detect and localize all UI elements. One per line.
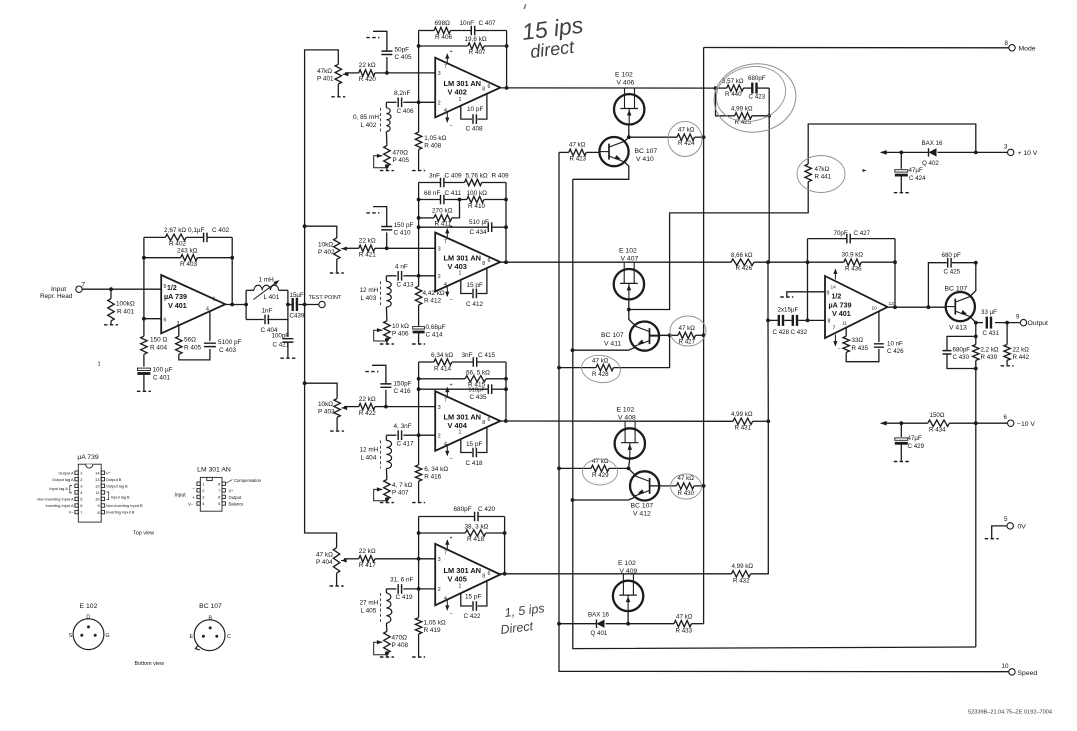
svg-text:C 417: C 417	[397, 441, 414, 448]
wire rail E (Mode rail)	[703, 48, 705, 624]
supply arrow up pin7 V404	[446, 388, 448, 397]
wire pin4 stub V401a	[209, 311, 211, 341]
svg-text:4: 4	[206, 307, 209, 313]
op-amp LM301AN V402	[435, 58, 500, 118]
svg-text:C 408: C 408	[466, 126, 483, 133]
svg-text:L 405: L 405	[361, 608, 377, 615]
transistor V409 E102	[613, 574, 643, 611]
junction row2 right V404	[504, 377, 508, 381]
wire C419 to pin2	[386, 588, 396, 590]
resistor R417 22k	[359, 556, 375, 562]
junction R424 rail E	[702, 135, 706, 139]
svg-text:52339B–21.04.75–ZE 0192–7004: 52339B–21.04.75–ZE 0192–7004	[968, 710, 1052, 716]
junction R436 left	[806, 260, 810, 264]
capacitor C417 4,3nF	[398, 430, 401, 440]
terminal -10V pin 6	[1008, 420, 1014, 426]
wire down to R412	[418, 276, 420, 286]
svg-text:680pF: 680pF	[748, 75, 766, 82]
potentiometer P406 10k	[384, 321, 390, 340]
junction P408 bottom	[385, 651, 389, 655]
svg-text:R 401: R 401	[117, 309, 134, 316]
svg-text:9: 9	[1016, 314, 1020, 321]
compensation leader line	[226, 480, 233, 484]
svg-text:P 405: P 405	[393, 157, 410, 164]
dashed ground below C429	[894, 461, 909, 463]
wire R435 bottom to C426 bottom	[846, 349, 879, 362]
svg-text:8: 8	[218, 481, 220, 486]
svg-text:B: B	[208, 616, 212, 622]
svg-text:Compensation: Compensation	[234, 478, 262, 483]
arrow through L401	[254, 282, 278, 300]
svg-text:10kΩ: 10kΩ	[318, 401, 333, 408]
wire feedback left vertical V403	[418, 183, 420, 276]
wire feedback row2 V405	[419, 532, 466, 534]
wire P403 to ground	[336, 417, 338, 430]
svg-text:R 411: R 411	[435, 221, 452, 228]
svg-text:4: 4	[444, 282, 447, 288]
wire tank bottom to C421	[287, 320, 289, 338]
svg-text:19,6 kΩ: 19,6 kΩ	[465, 36, 487, 43]
svg-text:+ 10 V: + 10 V	[1018, 150, 1038, 157]
svg-text:C 411: C 411	[445, 190, 462, 197]
wire C410 top to dashed ground	[373, 207, 387, 227]
junction rail G +10V	[974, 151, 978, 155]
svg-text:698Ω: 698Ω	[435, 20, 451, 27]
svg-text:22 kΩ: 22 kΩ	[359, 548, 376, 555]
svg-text:0,68µF: 0,68µF	[426, 324, 446, 331]
svg-text:−: −	[450, 297, 453, 303]
junction row2 left V404	[417, 377, 421, 381]
wire L402 top	[385, 102, 387, 108]
wire R433 row	[628, 623, 674, 625]
svg-text:6: 6	[488, 417, 491, 423]
svg-text:C 407: C 407	[479, 20, 496, 27]
wire L405 to P408	[385, 623, 388, 631]
svg-text:L 401: L 401	[264, 294, 280, 301]
svg-text:Inverting Input A: Inverting Input A	[45, 503, 74, 508]
supply arrow down pin7 V401b	[834, 335, 836, 346]
junction rail F output node	[766, 260, 770, 264]
svg-text:BC 107: BC 107	[199, 603, 222, 610]
svg-text:2: 2	[438, 433, 441, 439]
wire pin3 stub V401a	[178, 326, 180, 337]
svg-text:4,99 kΩ: 4,99 kΩ	[732, 563, 754, 570]
capacitor C409 3nF	[441, 178, 444, 188]
svg-text:L 404: L 404	[361, 455, 377, 462]
svg-text:Non-inverting Input A: Non-inverting Input A	[37, 497, 74, 502]
wire P404 to ground	[336, 573, 338, 585]
svg-text:−10 V: −10 V	[1017, 421, 1035, 428]
svg-text:1 mH: 1 mH	[259, 277, 275, 284]
svg-text:1,05 kΩ: 1,05 kΩ	[424, 135, 446, 142]
junction V408/V412 node	[627, 467, 631, 471]
wire P401 to ground	[337, 84, 339, 96]
wire C406 right	[403, 101, 406, 103]
svg-text:9: 9	[827, 291, 830, 297]
junction P407 bottom	[385, 497, 389, 501]
resistor R405 56	[176, 336, 182, 354]
svg-text:7: 7	[444, 239, 447, 245]
junction row3 left V403	[417, 225, 421, 229]
junction pin3 node V402	[385, 71, 389, 75]
svg-text:0V: 0V	[1018, 524, 1027, 531]
capacitor C432 15uF	[792, 315, 794, 326]
wire feedback right vertical V404	[505, 362, 507, 421]
svg-text:Non-inverting Input B: Non-inverting Input B	[106, 503, 143, 508]
resistor R431 4,99k	[733, 418, 753, 424]
terminal TEST POINT	[319, 301, 325, 307]
svg-text:Speed: Speed	[1018, 670, 1038, 677]
potentiometer P402 10k	[334, 238, 340, 259]
wire V406 bottom to junction	[628, 124, 630, 137]
junction V409/Q401/R433 node	[626, 622, 630, 626]
svg-text:R 441: R 441	[815, 174, 832, 181]
svg-text:243 kΩ: 243 kΩ	[177, 248, 198, 255]
wire 0V stub	[992, 526, 1007, 538]
svg-text:R 414: R 414	[434, 365, 451, 372]
wire feedback right vertical V403	[505, 183, 507, 263]
svg-text:C 418: C 418	[466, 460, 483, 467]
wire compensation box V403	[461, 280, 472, 294]
resistor R422 22k	[359, 403, 375, 409]
wire feedback left vertical V401a	[143, 237, 145, 318]
svg-text:1: 1	[213, 297, 216, 303]
svg-text:4: 4	[444, 596, 447, 602]
svg-text:6: 6	[488, 84, 491, 90]
wire L403 top	[385, 276, 387, 282]
wire R442 to ground	[1006, 360, 1008, 365]
wire output row V404 to R431	[500, 420, 733, 422]
wire C419 right	[403, 588, 406, 590]
wire C405 top to dashed ground	[373, 31, 387, 51]
svg-text:7: 7	[82, 282, 86, 289]
ground below P405	[380, 170, 394, 172]
wire pot wiper row V404	[344, 406, 359, 408]
svg-text:7: 7	[444, 398, 447, 404]
svg-text:P 402: P 402	[318, 249, 335, 256]
wire V410 base row R423	[559, 151, 569, 153]
svg-text:0, 85 mH: 0, 85 mH	[353, 114, 379, 121]
junction rail G -10V	[974, 421, 978, 425]
inductor L405 27mH	[386, 593, 391, 623]
wire V407 bottom junction	[628, 299, 630, 309]
wire rail B (left switching rail to Speed)	[559, 152, 1009, 671]
stray speck marks	[863, 169, 867, 172]
capacitor C411 68nF	[441, 195, 444, 205]
svg-text:BAX 16: BAX 16	[922, 140, 944, 147]
svg-text:Output B: Output B	[106, 477, 122, 482]
capacitor C410 150pF	[381, 227, 392, 230]
ground below P406	[380, 343, 394, 345]
wire compensation box V405	[461, 593, 472, 606]
node input terminal wire	[82, 288, 161, 290]
resistor R419 1,05k	[415, 618, 421, 634]
svg-text:3: 3	[438, 247, 441, 253]
svg-text:−: −	[838, 347, 841, 353]
resistor R429 47k	[591, 465, 609, 471]
capacitor C404 1nF	[265, 315, 268, 325]
capacitor C420 680pF	[475, 512, 478, 522]
svg-text:C 428: C 428	[773, 329, 790, 336]
ground below P407	[380, 502, 394, 504]
svg-text:27 mH: 27 mH	[360, 600, 379, 607]
capacitor C406 8,2nF	[398, 98, 401, 108]
wire C401 to ground	[143, 375, 145, 391]
wire rail C (emitter rail)	[573, 179, 976, 648]
wire V411 emitter to rail C	[573, 348, 635, 350]
wire pin3 row V405	[344, 558, 359, 560]
svg-text:3: 3	[202, 495, 204, 500]
svg-text:V 405: V 405	[448, 575, 467, 584]
wire V408 bottom junction	[629, 459, 630, 469]
svg-text:C 420: C 420	[478, 506, 495, 513]
wire R412 to C414	[418, 305, 420, 326]
wire down to R419	[418, 589, 420, 618]
wire V413 emitter to node	[971, 317, 976, 322]
potentiometer P404 47k	[333, 548, 339, 574]
wire V412 emitter to rail C	[573, 498, 635, 500]
svg-text:2: 2	[438, 587, 441, 593]
wire R436 row	[808, 261, 844, 263]
resistor R425 4,99k	[735, 113, 752, 119]
svg-text:R 419: R 419	[424, 627, 441, 634]
svg-text:C 401: C 401	[153, 375, 170, 382]
transistor V408 E102	[615, 421, 645, 458]
op-amp LM301AN V404	[435, 391, 500, 451]
wire pin9 row with dashed ground	[787, 292, 825, 297]
svg-text:3: 3	[80, 484, 82, 489]
svg-text:V⁺: V⁺	[229, 489, 234, 494]
wire tank box	[245, 290, 247, 319]
potentiometer P407 4,7k	[384, 480, 390, 500]
svg-text:Output lag A: Output lag A	[52, 477, 74, 482]
svg-text:1: 1	[459, 270, 462, 276]
wire C417 right	[403, 434, 406, 436]
svg-text:3: 3	[1004, 143, 1008, 150]
svg-text:L 402: L 402	[361, 122, 377, 129]
wire Mode row	[704, 47, 1009, 49]
wire feedback row2 V401a	[144, 257, 181, 259]
svg-text:1: 1	[459, 430, 462, 436]
wire C425 loop	[928, 263, 946, 308]
svg-text:E 102: E 102	[618, 560, 636, 567]
svg-text:V 408: V 408	[618, 414, 636, 421]
resistor R416 6,34k	[415, 465, 421, 481]
svg-text:4,42 kΩ: 4,42 kΩ	[423, 290, 445, 297]
hand-drawn oval around R440 block	[710, 59, 801, 138]
op-amp LM301AN V403	[435, 233, 500, 292]
svg-text:R 403: R 403	[180, 261, 197, 268]
svg-text:R 440: R 440	[725, 91, 742, 98]
terminal Speed pin 10	[1009, 669, 1015, 675]
svg-text:5100 pF: 5100 pF	[218, 339, 242, 346]
junction V404 output feedback	[504, 419, 508, 423]
junction output / R442	[1005, 321, 1009, 325]
ground below P402	[330, 272, 344, 274]
svg-text:C 424: C 424	[909, 175, 926, 182]
wire pin2 row V405	[406, 588, 435, 590]
junction pin2 V402	[417, 100, 421, 104]
svg-text:C: C	[227, 634, 231, 640]
terminal +10V pin 3	[1008, 149, 1014, 155]
svg-text:8,2nF: 8,2nF	[394, 90, 410, 97]
svg-text:E 102: E 102	[80, 603, 98, 610]
svg-text:Repr. Head: Repr. Head	[40, 293, 73, 300]
svg-text:R 434: R 434	[929, 426, 946, 433]
svg-text:6: 6	[1004, 414, 1008, 421]
wire feedback right vertical V401a	[231, 237, 233, 304]
transistor V411 BC107	[630, 322, 659, 351]
junction R428 rail B	[557, 366, 561, 370]
svg-text:R 408: R 408	[424, 143, 441, 150]
svg-text:3,57 kΩ: 3,57 kΩ	[722, 78, 744, 85]
svg-text:BC 107: BC 107	[601, 332, 624, 339]
wire -10V row	[884, 422, 928, 424]
hand-drawn oval around R424	[668, 122, 702, 157]
svg-text:4: 4	[444, 441, 447, 447]
junction row2 right V403	[504, 198, 508, 202]
wire feedback row3 V404	[419, 388, 489, 390]
svg-text:R 422: R 422	[359, 410, 376, 417]
svg-text:150Ω: 150Ω	[930, 412, 945, 419]
resistor R428 47k	[596, 364, 614, 370]
svg-text:E: E	[189, 634, 193, 640]
wire output row V401a	[225, 304, 246, 306]
supply arrow down pin4 V405	[446, 600, 448, 610]
bracket Input lag A	[70, 486, 72, 493]
svg-text:D: D	[86, 615, 90, 621]
wire feedback left vertical V402	[418, 31, 420, 103]
svg-text:R 404: R 404	[150, 345, 167, 352]
supply arrow down pin4 V403	[446, 286, 448, 296]
transistor V412 BC107	[630, 471, 659, 500]
hand-drawn oval around R430	[671, 474, 702, 499]
wire output row V401b	[888, 306, 947, 308]
wire V410 emitter down to rail C	[573, 162, 629, 179]
transistor V413 BC107	[946, 292, 975, 321]
svg-text:510pF: 510pF	[469, 388, 486, 394]
svg-text:3nF: 3nF	[462, 352, 473, 359]
junction R439/C430 bottom	[974, 367, 978, 371]
capacitor C405 50pF	[381, 51, 392, 54]
junction V406/V410/R424 node	[627, 135, 631, 139]
svg-text:10 nF: 10 nF	[887, 341, 903, 348]
svg-text:4, 3nF: 4, 3nF	[394, 423, 412, 430]
junction row2 right	[230, 256, 234, 260]
wire L402 to P405	[385, 132, 388, 146]
svg-text:66, 5 kΩ: 66, 5 kΩ	[466, 369, 490, 376]
svg-text:30,9 kΩ: 30,9 kΩ	[842, 252, 864, 259]
resistor R435 33	[843, 336, 849, 352]
wire C439 to test point	[299, 304, 319, 306]
svg-text:3: 3	[438, 557, 441, 563]
svg-text:10nF: 10nF	[460, 20, 475, 27]
capacitor comp V404	[473, 448, 476, 458]
junction P405 bottom	[385, 164, 389, 168]
wire C406 to pin2	[386, 101, 396, 103]
svg-text:8: 8	[482, 420, 485, 426]
junction P406 bottom	[385, 338, 389, 342]
svg-text:4: 4	[444, 108, 447, 114]
resistor R406 698	[434, 27, 450, 33]
wire C424 to ground	[900, 176, 902, 192]
ground below P401	[331, 96, 345, 98]
svg-text:Input lag A: Input lag A	[49, 486, 68, 491]
junction distribution rail / test point node	[303, 303, 307, 307]
hand-drawn oval around R428	[580, 353, 622, 385]
dashed ground above C416	[365, 371, 378, 373]
capacitor C425 680pF	[948, 258, 951, 268]
wire L404 to P407	[385, 469, 388, 480]
svg-text:µA 739: µA 739	[77, 454, 99, 461]
resistor R402 2,67k	[165, 234, 186, 240]
svg-text:V 407: V 407	[621, 256, 639, 263]
wire feedback row2 V403	[419, 199, 441, 201]
svg-text:12: 12	[95, 484, 99, 489]
resistor R411 270k	[434, 215, 452, 221]
resistor R430 47k	[676, 483, 694, 489]
wire pot wiper row V402	[345, 72, 359, 74]
ground below R419	[412, 656, 425, 658]
svg-text:R 431: R 431	[735, 425, 752, 432]
wire V412 base row R430	[650, 485, 676, 487]
svg-text:R 424: R 424	[678, 140, 695, 147]
inductor L402 0,85mH	[386, 108, 391, 132]
svg-text:1/2: 1/2	[832, 294, 842, 301]
svg-text:7: 7	[444, 550, 447, 556]
svg-text:38, 3 kΩ: 38, 3 kΩ	[465, 523, 489, 530]
resistor R426 8,66k	[731, 259, 754, 265]
svg-text:C 410: C 410	[394, 230, 411, 237]
wire compensation box V402	[461, 106, 472, 119]
junction V411 emitter rail C	[571, 348, 575, 352]
capacitor comp V403	[473, 289, 476, 299]
svg-text:2: 2	[438, 101, 441, 107]
wire V412 collector to node	[629, 468, 636, 475]
svg-text:1: 1	[459, 583, 462, 589]
capacitor C405 50pF with ground stub	[386, 57, 388, 73]
resistor R407 19,6k	[468, 43, 484, 49]
svg-text:11: 11	[95, 490, 99, 495]
svg-text:150 Ω: 150 Ω	[150, 337, 167, 344]
capacitor comp V405	[473, 601, 476, 611]
wire feedback row1 V403	[419, 182, 441, 184]
transistor V407 E102	[614, 262, 644, 299]
svg-text:10: 10	[872, 306, 878, 312]
svg-text:8: 8	[482, 87, 485, 93]
svg-text:47 kΩ: 47 kΩ	[592, 357, 609, 364]
svg-text:15µF: 15µF	[290, 292, 304, 299]
svg-text:2,67 kΩ: 2,67 kΩ	[164, 227, 186, 234]
svg-text:C 402: C 402	[212, 227, 229, 234]
svg-text:C 413: C 413	[397, 281, 414, 288]
capacitor C426 10nF	[874, 344, 884, 347]
svg-text:+: +	[450, 49, 453, 55]
junction pin3 node V403	[385, 246, 389, 250]
svg-text:5: 5	[164, 284, 167, 290]
svg-text:C 426: C 426	[887, 348, 904, 355]
svg-text:C 432: C 432	[791, 329, 808, 336]
wire pin2 row V404	[406, 434, 435, 436]
svg-text:Output lag B: Output lag B	[106, 483, 128, 488]
wire feedback row2 V402	[419, 45, 468, 47]
junction V401b output feedback	[893, 305, 897, 309]
svg-text:470Ω: 470Ω	[393, 150, 409, 157]
junction row2 left V402	[417, 44, 421, 48]
svg-text:R 425: R 425	[735, 119, 752, 126]
svg-text:5: 5	[1004, 516, 1008, 523]
resistor R432 4,99k	[732, 571, 751, 577]
